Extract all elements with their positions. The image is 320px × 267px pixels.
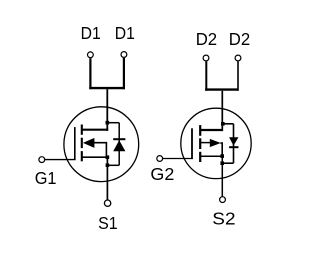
diode D1 body triangle bbox=[113, 140, 125, 151]
wire D1b drain lead bbox=[123, 58, 125, 89]
wire diode branch bottom Q1 bbox=[107, 164, 119, 166]
wire drain stem bbox=[106, 89, 108, 131]
terminal G1 circle bbox=[39, 157, 45, 163]
wire body Q1 bbox=[94, 143, 106, 158]
svg-text:S2: S2 bbox=[212, 209, 235, 229]
wire D2a drain lead bbox=[205, 61, 207, 91]
terminal D1b circle bbox=[121, 52, 127, 58]
wire drain stem Q2 bbox=[221, 91, 223, 131]
wire body Q2 bbox=[201, 142, 210, 144]
terminal D1a circle bbox=[88, 52, 94, 58]
gate bar Q1 bbox=[74, 127, 76, 160]
wire gate G1 bbox=[45, 159, 76, 161]
wire source stem Q2 bbox=[221, 156, 223, 197]
junction dot Q1 source node bbox=[106, 155, 110, 159]
terminal S1 circle bbox=[104, 200, 110, 206]
svg-text:G2: G2 bbox=[150, 164, 174, 184]
diode D1 body cathode bar bbox=[113, 138, 125, 140]
wire drain contact Q1 bbox=[82, 129, 108, 131]
channel top bar Q2 bbox=[199, 125, 201, 136]
wire diode branch top Q2 bbox=[222, 123, 233, 125]
wire diode branch vertical Q1 bbox=[118, 123, 120, 166]
terminal D2b circle bbox=[235, 55, 241, 61]
terminal D2a circle bbox=[203, 55, 209, 61]
diode D2 body triangle bbox=[229, 137, 238, 146]
wire source contact Q2 bbox=[200, 155, 223, 157]
svg-text:D1: D1 bbox=[115, 23, 135, 43]
wire diode branch vertical Q2 bbox=[233, 124, 235, 163]
junction dot Q1 drain node bbox=[106, 121, 110, 125]
junction dot Q1 diode anode node bbox=[106, 163, 110, 167]
svg-text:D2: D2 bbox=[196, 29, 217, 49]
terminal S2 circle bbox=[220, 197, 226, 203]
wire D2b drain lead bbox=[237, 61, 239, 91]
junction dot Q2 drain node bbox=[221, 122, 225, 126]
wire diode branch bottom Q2 bbox=[222, 162, 233, 164]
channel bottom bar Q2 bbox=[199, 152, 201, 162]
wire diode branch top Q1 bbox=[107, 122, 119, 124]
svg-text:D1: D1 bbox=[81, 23, 101, 43]
transistor Q2 body circle bbox=[181, 108, 251, 178]
body arrow Q2 (P-channel, pointing right) bbox=[210, 139, 221, 147]
terminal G2 circle bbox=[157, 156, 163, 162]
wire D1a drain lead bbox=[89, 58, 91, 89]
wire drain tie bar Q2 bbox=[205, 88, 238, 90]
channel bottom bar Q1 bbox=[81, 151, 83, 161]
transistor Q1 body circle bbox=[64, 107, 139, 182]
channel middle bar Q1 bbox=[81, 138, 83, 148]
wire drain contact Q2 bbox=[200, 129, 224, 131]
svg-text:G1: G1 bbox=[35, 168, 57, 188]
body arrow Q1 (N-channel, pointing left) bbox=[83, 138, 95, 148]
channel middle bar Q2 bbox=[199, 138, 201, 149]
wire source contact Q1 bbox=[82, 156, 107, 158]
gate bar Q2 bbox=[191, 128, 193, 159]
svg-text:D2: D2 bbox=[229, 29, 250, 49]
junction dot Q2 diode cathode node bbox=[220, 161, 224, 165]
junction dot Q2 source node bbox=[220, 154, 224, 158]
wire gate G2 bbox=[163, 158, 193, 160]
diode D2 body anode bar bbox=[229, 146, 238, 148]
wire source stem Q1 bbox=[106, 157, 108, 199]
wire body to source node Q2 bbox=[220, 143, 222, 156]
svg-text:S1: S1 bbox=[98, 213, 118, 233]
channel top bar Q1 bbox=[81, 125, 83, 135]
wire drain tie bar bbox=[89, 87, 125, 89]
